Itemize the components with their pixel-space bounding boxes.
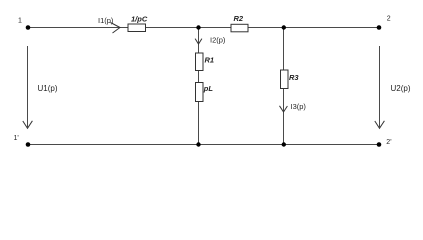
wire vertical branch R1/pL (198, 28, 200, 54)
node 2 terminal dot (377, 25, 382, 30)
current arrow I3(p) (280, 106, 288, 112)
svg-text:I2(p): I2(p) (210, 36, 226, 45)
node 1' terminal dot (26, 142, 31, 147)
svg-text:2: 2 (387, 15, 391, 22)
junction top A (196, 25, 200, 29)
svg-text:1: 1 (18, 17, 22, 24)
junction top B (282, 25, 286, 29)
svg-text:R3: R3 (289, 73, 299, 82)
svg-text:I3(p): I3(p) (291, 102, 307, 111)
svg-text:2': 2' (386, 139, 391, 146)
node 2' terminal dot (377, 142, 382, 147)
current arrow I2(p) (195, 39, 202, 44)
svg-text:pL: pL (203, 84, 214, 93)
node 1 terminal dot (26, 25, 31, 30)
wire top rail (28, 27, 379, 29)
svg-text:I1(p): I1(p) (98, 16, 114, 25)
junction bottom B (282, 142, 286, 146)
svg-text:1/pC: 1/pC (131, 14, 148, 23)
svg-text:R1: R1 (205, 56, 215, 65)
svg-text:U1(p): U1(p) (38, 84, 58, 93)
svg-text:1': 1' (14, 135, 19, 142)
svg-text:R2: R2 (234, 14, 244, 23)
current arrow I1(p) (111, 23, 121, 34)
svg-text:U2(p): U2(p) (391, 84, 411, 93)
wire vertical branch R3 (283, 28, 285, 71)
resistor R3 (281, 70, 289, 89)
voltage arrow U1(p) (27, 46, 29, 127)
inductor pL (196, 83, 204, 102)
capacitor 1/pC (128, 24, 146, 32)
junction bottom A (196, 142, 200, 146)
resistor R1 (196, 53, 204, 71)
wire bottom rail (28, 144, 379, 146)
resistor R2 (231, 24, 248, 32)
voltage arrow U2(p) (379, 46, 381, 127)
